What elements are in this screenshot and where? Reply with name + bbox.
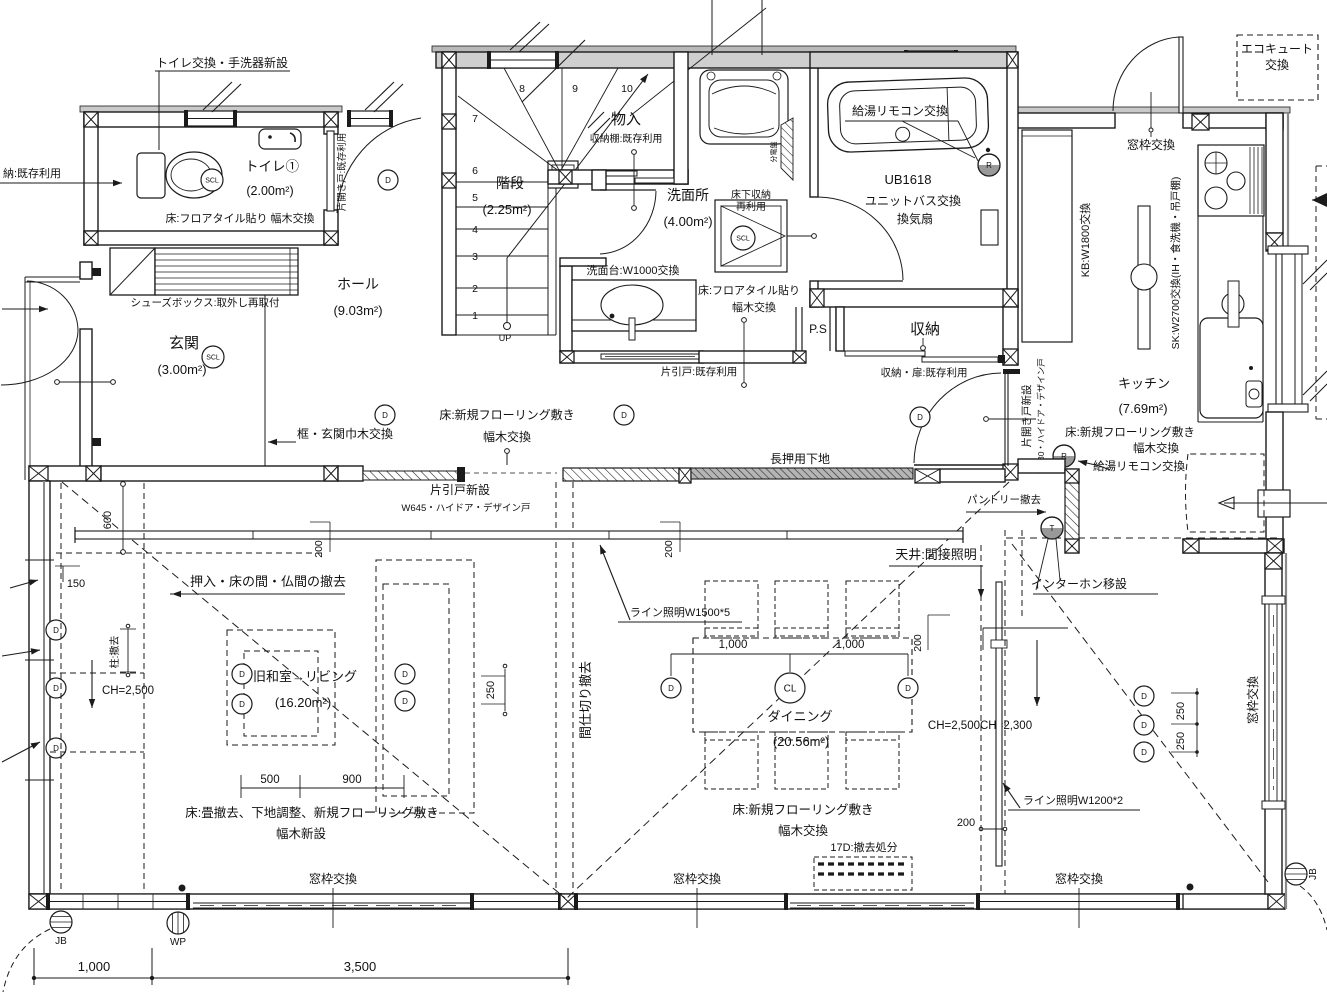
svg-text:JB: JB	[1308, 868, 1319, 880]
pillar cross: LDK top NW cross	[29, 466, 48, 481]
removal diagonal C (to SE corner)	[1012, 544, 1271, 886]
svg-text:SCL: SCL	[206, 355, 220, 362]
wall: LDK right wall	[1265, 553, 1282, 894]
ceiling line-light bar horizontal	[75, 531, 963, 539]
svg-text:物入: 物入	[611, 111, 641, 128]
svg-text:SCL: SCL	[205, 178, 219, 185]
svg-text:(16.20m²): (16.20m²)	[275, 695, 331, 710]
LDK left wall inner gray	[43, 481, 45, 894]
symbol circle: door mark D living-4	[395, 691, 415, 711]
kitchen top door arc	[1113, 37, 1179, 111]
svg-text:CL: CL	[784, 684, 797, 695]
kitchen new hatched wall	[1065, 469, 1079, 553]
eaves line above top wall	[432, 46, 1016, 52]
svg-text:収納: 収納	[910, 321, 940, 338]
arrow into left wall 1	[2, 650, 40, 656]
symbol circle: door mark D right-2	[1134, 715, 1154, 735]
window: top wall window above stairs	[487, 51, 559, 69]
svg-text:床:新規フローリング敷き: 床:新規フローリング敷き	[439, 407, 574, 422]
svg-text:150: 150	[67, 578, 85, 590]
symbol circle: door mark D right-1	[1134, 686, 1154, 706]
pillar cross: stairs wall cross low	[442, 173, 456, 188]
dining chair bottom 1	[705, 732, 758, 789]
black dot bottom left	[179, 885, 186, 892]
svg-text:天井:間接照明: 天井:間接照明	[895, 547, 977, 562]
wall: toilet left wall	[84, 112, 98, 245]
KB cabinet	[1022, 130, 1072, 342]
svg-text:旧和室→リビング: 旧和室→リビング	[253, 669, 357, 684]
svg-text:UP: UP	[499, 333, 512, 343]
symbol circle: door mark D toilet	[378, 170, 398, 190]
kamachi arrow	[268, 441, 296, 443]
symbol circle: R mark bath	[978, 154, 1000, 176]
dashed vertical left band 1	[60, 483, 62, 890]
svg-text:10: 10	[621, 83, 633, 95]
new wall tick bottom	[92, 438, 101, 446]
pillar cross: cross x915	[915, 469, 940, 483]
kitchen counter edges	[1197, 145, 1199, 422]
living dashed rect inner	[244, 651, 318, 736]
svg-text:換気扇: 換気扇	[897, 211, 933, 226]
svg-text:200: 200	[313, 540, 325, 558]
pillar cross: hatched wall bottom cross	[1065, 539, 1079, 553]
svg-text:窓枠交換: 窓枠交換	[1055, 871, 1103, 886]
eaves above toilet block	[80, 106, 342, 112]
back door arrow	[1224, 502, 1327, 504]
pillar cross: right wall top cross	[1265, 553, 1282, 569]
pillar cross: LDK bottom SW cross	[29, 894, 48, 909]
svg-text:柱:撤去: 柱:撤去	[108, 636, 121, 669]
svg-text:幅木交換: 幅木交換	[483, 429, 531, 444]
svg-text:250: 250	[485, 681, 497, 699]
cutting board rect	[1228, 281, 1239, 327]
hall floor note leader	[505, 449, 510, 454]
bottom track lines 2	[790, 902, 974, 904]
svg-text:床:新規フローリング敷き: 床:新規フローリング敷き	[1065, 425, 1195, 439]
svg-text:UB1618: UB1618	[885, 172, 932, 187]
svg-text:200: 200	[957, 817, 975, 829]
floor storage outer square	[715, 200, 787, 272]
svg-text:ホール: ホール	[337, 276, 379, 292]
dashed arc bottom left	[3, 929, 50, 992]
pillar cross: kitchen top wall cross R	[1266, 114, 1283, 130]
wall: storage right wall	[1003, 307, 1018, 365]
svg-text:D: D	[668, 684, 674, 693]
wall: top outer wall (stairs-bath)	[436, 52, 1016, 68]
LDK right wall outer gray	[1285, 553, 1287, 909]
underline and leaders for bath note	[845, 120, 958, 122]
symbol circle: door mark D living-1	[232, 664, 252, 684]
pillar cross: kitchen top wall cross L	[1192, 114, 1209, 130]
bath door arc	[818, 197, 903, 280]
hood circle	[1131, 264, 1157, 290]
dim 250 bracket right	[1196, 688, 1198, 757]
down arrow left	[91, 660, 93, 708]
pillar cross: bath SE cross	[1003, 289, 1018, 307]
shoe box shelves	[155, 248, 298, 295]
svg-text:幅木交換: 幅木交換	[1133, 441, 1179, 455]
leader line from toilet note	[155, 70, 290, 72]
bottom wall right segment	[1183, 894, 1268, 909]
dashed vertical left band 2	[143, 483, 145, 890]
symbol circle: CL mark dining	[775, 673, 805, 703]
svg-text:D: D	[382, 411, 388, 420]
svg-text:1: 1	[472, 310, 478, 322]
engawa slash marks bottom	[1303, 371, 1327, 395]
svg-text:4: 4	[472, 224, 478, 236]
wall: washroom left wall upper stub	[592, 170, 606, 190]
washroom floor leader	[742, 318, 747, 323]
washroom door leaf	[600, 189, 656, 191]
arrow down 1	[980, 570, 982, 598]
symbol circle: door mark D dining-L	[661, 678, 681, 698]
new wall tick top	[92, 268, 101, 276]
svg-text:片引戸新設: 片引戸新設	[430, 482, 490, 497]
wall: bath bottom wall	[810, 289, 1018, 307]
svg-text:D: D	[239, 700, 245, 709]
wall: washroom left wall lower	[560, 266, 572, 351]
svg-text:3: 3	[472, 251, 478, 263]
dashed outline right of engawa	[1315, 166, 1317, 419]
svg-text:200: 200	[663, 540, 675, 558]
svg-text:900: 900	[342, 774, 361, 786]
closet leader line	[632, 150, 637, 155]
pillar cross: cross at PS	[793, 351, 806, 363]
wall: closet bottom wall	[548, 170, 688, 184]
symbol circle: SCL mark toilet	[201, 169, 223, 191]
wall: LDK top wall seg3	[338, 466, 363, 481]
svg-text:(7.69m²): (7.69m²)	[1118, 401, 1167, 416]
left wall tick marks	[25, 559, 54, 561]
light connector line	[671, 653, 908, 655]
toilet bowl	[166, 152, 222, 198]
svg-text:(3.00m²): (3.00m²)	[157, 362, 206, 377]
wall: wall washroom to PS	[699, 351, 805, 363]
stair winder landing square	[548, 161, 578, 188]
symbol circle: door mark D left-3	[46, 738, 66, 758]
svg-text:納:既存利用: 納:既存利用	[3, 166, 61, 180]
svg-text:8: 8	[519, 83, 525, 95]
washing machine outline	[700, 70, 788, 144]
stair treads lower flight	[456, 206, 548, 208]
dining chair bottom 2	[775, 732, 828, 789]
svg-text:階段: 階段	[496, 175, 524, 191]
bottom dimension line	[34, 977, 568, 979]
svg-text:KB:W1800交換: KB:W1800交換	[1078, 203, 1092, 278]
pillar cross: LDK bottom cross mid	[560, 894, 576, 909]
pillar dim bracket	[127, 629, 129, 672]
window slash mark 1	[203, 82, 232, 110]
wall: kitchen bottom-right wall	[1183, 539, 1284, 553]
faucet circle	[1222, 293, 1244, 315]
wall: bath left wall	[810, 68, 818, 197]
symbol circle: JB mark right	[1285, 863, 1307, 885]
window slash mark above bath window	[522, 40, 585, 102]
pillar cross: kitchen bottom-right cross R	[1267, 539, 1283, 553]
pillar cross: storage right cross	[1003, 349, 1018, 365]
wall: LDK top wall hall-door seg	[940, 469, 1005, 482]
svg-text:玄関: 玄関	[169, 335, 199, 352]
long dashed line under kitchen	[1006, 537, 1280, 539]
svg-text:D: D	[402, 670, 408, 679]
svg-text:WP: WP	[170, 937, 186, 948]
shoe box square	[110, 248, 155, 295]
entrance door arc outer	[27, 281, 78, 331]
svg-text:CH=2,500: CH=2,500	[102, 685, 154, 697]
wall: toilet right wall top stub	[324, 112, 338, 134]
svg-text:給湯リモコン交換: 給湯リモコン交換	[1093, 459, 1185, 473]
エコキュート交換 dashed box	[1237, 35, 1318, 100]
dining table dashed	[693, 638, 912, 732]
svg-text:CH=2,500CH=2,300: CH=2,500CH=2,300	[928, 720, 1032, 732]
svg-text:片引戸:既存利用: 片引戸:既存利用	[661, 365, 737, 378]
underline intercom	[1033, 593, 1158, 595]
pillar cross: toilet SW	[84, 231, 98, 245]
svg-text:7: 7	[472, 113, 478, 125]
symbol circle: JB mark bottom-left	[50, 911, 72, 933]
svg-text:1,000: 1,000	[836, 639, 865, 651]
symbol circle: R mark kitchen	[1053, 445, 1075, 467]
wall: toilet bottom wall	[84, 231, 338, 245]
svg-text:キッチン: キッチン	[1118, 376, 1170, 391]
wall: right wall below engawa	[1266, 412, 1283, 539]
svg-text:(2.00m²): (2.00m²)	[246, 184, 293, 198]
pillar cross: LDK bottom SE cross	[1268, 894, 1285, 909]
door frame verticals	[1004, 373, 1006, 466]
svg-text:3,500: 3,500	[344, 959, 377, 974]
leader from top to 物入	[630, 8, 766, 116]
wall: kitchen top wall right part	[1183, 113, 1283, 128]
sink soap tray	[1246, 381, 1262, 407]
svg-text:200: 200	[912, 634, 924, 652]
symbol circle: door mark D hall-1	[375, 405, 395, 425]
svg-text:250: 250	[1175, 702, 1187, 720]
svg-text:窓枠交換: 窓枠交換	[1127, 137, 1175, 152]
svg-text:T: T	[1050, 524, 1055, 533]
washroom sliding door 片引戸	[601, 354, 699, 359]
floor storage leader	[787, 235, 812, 237]
dining chair bottom 3	[846, 732, 899, 789]
svg-text:窓枠交換: 窓枠交換	[1245, 676, 1260, 724]
svg-text:収納・扉:既存利用: 収納・扉:既存利用	[881, 366, 968, 379]
svg-text:交換: 交換	[1265, 57, 1289, 72]
symbol circle: door mark D hall-LDK	[910, 407, 930, 427]
kitchen back door step rect	[1258, 490, 1290, 517]
dashed horizontal left	[56, 552, 325, 554]
svg-text:D: D	[1141, 748, 1147, 757]
nageshi gray hatched band	[691, 468, 913, 479]
svg-text:トイレ①: トイレ①	[245, 159, 299, 174]
wall: entrance left outer wall lower	[80, 329, 92, 468]
svg-text:D: D	[621, 411, 627, 420]
hall-LDK door leaf	[914, 464, 1003, 466]
arrow into left wall 3	[10, 580, 38, 588]
top edge stub lines	[711, 0, 713, 55]
svg-text:洗面所: 洗面所	[667, 187, 709, 203]
agari-kamachi line	[264, 295, 266, 466]
pillar cross: bath NE cross	[1007, 52, 1018, 68]
bar tick rect	[991, 640, 1007, 648]
svg-text:W780・ハイドア・デザイン戸: W780・ハイドア・デザイン戸	[1036, 358, 1046, 474]
symbol circle: door mark D living-3	[395, 664, 415, 684]
svg-text:洗面台:W1000交換: 洗面台:W1000交換	[587, 263, 680, 277]
closet sliding door panel 2	[635, 178, 674, 183]
wall: storage left wall	[836, 307, 844, 351]
svg-text:(9.03m²): (9.03m²)	[333, 303, 382, 318]
wall: LDK top wall seg1	[29, 466, 101, 481]
svg-text:床:フロアタイル貼り 幅木交換: 床:フロアタイル貼り 幅木交換	[165, 211, 314, 225]
svg-text:D: D	[239, 670, 245, 679]
closet sliding door panel 1	[597, 171, 637, 176]
leader dot for new door	[984, 417, 989, 422]
pillar cross: toilet SE	[324, 231, 338, 245]
window: LDK bottom window 4	[976, 893, 1180, 910]
symbol circle: T mark intercom	[1041, 517, 1063, 539]
pillar cross: stairs wall cross mid	[442, 114, 456, 129]
pillar cross: washroom bottom cross	[560, 351, 574, 363]
svg-text:幅木交換: 幅木交換	[778, 823, 829, 838]
svg-text:D: D	[917, 413, 923, 422]
wall: bath top separation	[810, 52, 1016, 68]
leader for kitchen top window	[1150, 92, 1152, 137]
floor storage inner square	[721, 206, 781, 266]
svg-text:窓枠交換: 窓枠交換	[673, 871, 721, 886]
svg-text:1,000: 1,000	[719, 639, 748, 651]
intercom leaders	[1036, 539, 1048, 590]
svg-text:収納棚:既存利用: 収納棚:既存利用	[590, 132, 663, 145]
distribution board hatched wedge	[781, 118, 793, 180]
symbol circle: door mark D living-2	[232, 694, 252, 714]
pillar cross: LDK top cross x325	[324, 466, 338, 481]
svg-text:再利用: 再利用	[736, 201, 766, 213]
wall: toilet right wall bottom stub	[324, 210, 338, 245]
wall: bath left wall lower stub	[810, 281, 818, 307]
arrow into left wall 2	[2, 742, 40, 762]
svg-text:ユニットバス交換: ユニットバス交換	[865, 193, 961, 208]
svg-text:幅木交換: 幅木交換	[732, 300, 776, 314]
svg-text:片開き戸新設: 片開き戸新設	[1020, 384, 1033, 447]
svg-text:エコキュート: エコキュート	[1241, 42, 1313, 56]
svg-text:D: D	[1141, 721, 1147, 730]
svg-text:押入・床の間・仏間の撤去: 押入・床の間・仏間の撤去	[190, 574, 346, 589]
entrance step line with dots	[57, 381, 113, 383]
new hatched wall LDK top	[563, 468, 679, 481]
entry arrow	[2, 308, 48, 310]
svg-text:トイレ交換・手洗器新設: トイレ交換・手洗器新設	[156, 55, 288, 70]
symbol circle: SCL mark entrance	[202, 346, 224, 368]
fridge dashed box	[1186, 454, 1265, 532]
bathtub outer	[827, 77, 989, 153]
svg-text:5: 5	[472, 192, 478, 204]
dining chair top 1	[705, 581, 758, 638]
storage door end cap	[998, 355, 1005, 363]
pillar cross: hatched wall top cross	[1065, 469, 1079, 483]
window slash mark 2	[365, 82, 394, 110]
window: toilet top wall window 2	[347, 110, 393, 127]
living right dashed rect inner	[383, 584, 449, 796]
storage label leader	[922, 338, 924, 345]
svg-text:ダイニング: ダイニング	[767, 709, 832, 724]
window: LDK bottom window 2	[470, 893, 562, 910]
svg-text:D: D	[53, 684, 59, 693]
toilet door leaf (swing door)	[327, 131, 334, 211]
storage sliding door panel 2	[922, 357, 998, 362]
svg-text:R: R	[986, 161, 992, 170]
UP path break marks	[588, 112, 604, 128]
hall-LDK door arc	[914, 373, 1001, 463]
wall: bath right wall	[1007, 52, 1018, 307]
black dot bottom right	[1187, 884, 1194, 891]
pillar cross: bath SW cross	[810, 289, 824, 307]
bar top hline	[983, 627, 1068, 629]
svg-text:給湯リモコン交換: 給湯リモコン交換	[852, 103, 948, 118]
wall: LDK bottom wall	[29, 894, 1285, 909]
wall: LDK left wall	[29, 481, 50, 894]
bath door leaf	[818, 280, 903, 282]
window slash mark above stairs window	[510, 22, 540, 50]
symbol circle: door mark D dining-R	[898, 678, 918, 698]
wall: entrance left outer wall upper	[80, 262, 92, 279]
vertical line-light bar	[996, 582, 1002, 866]
arrows to R circle kitchen	[1078, 461, 1100, 466]
partition removal dashed pair	[555, 482, 557, 894]
wall: kitchen right outer wall	[1266, 113, 1283, 233]
window1 mullions	[82, 894, 84, 909]
symbol circle: WP mark bottom-left	[167, 912, 189, 934]
dashed closet box left-bottom	[50, 672, 144, 674]
svg-text:間仕切り撤去: 間仕切り撤去	[578, 661, 593, 739]
entrance door arc inner (double swing)	[1, 331, 78, 385]
UP path line	[506, 258, 508, 322]
washbasin counter	[572, 280, 696, 331]
dining chair top 3	[846, 581, 899, 638]
svg-text:9: 9	[572, 83, 578, 95]
svg-text:1,000: 1,000	[78, 959, 111, 974]
kitchen top door leaf	[1179, 37, 1183, 113]
engawa slash marks top	[1303, 260, 1327, 284]
window: toilet top wall window 1	[184, 110, 237, 127]
UP start circle	[504, 323, 511, 330]
washroom door arc	[600, 191, 656, 254]
bath bench rect	[981, 210, 998, 245]
svg-text:W645・ハイドア・デザイン戸: W645・ハイドア・デザイン戸	[401, 502, 530, 514]
svg-text:ライン照明W1200*2: ライン照明W1200*2	[1023, 794, 1123, 807]
wall: toilet block top wall	[84, 112, 338, 127]
pillar cross: toilet NW	[84, 112, 98, 127]
engawa window verticals	[1275, 254, 1277, 404]
outer face line right	[1287, 113, 1289, 251]
wall: closet right wall	[674, 52, 688, 184]
removal diagonal B (dining NE-SW)	[567, 482, 1009, 898]
pantry dashed verticals	[980, 545, 982, 894]
eaves above kitchen top wall	[1016, 107, 1290, 113]
left arrow at right edge	[1312, 193, 1327, 207]
living dashed rect outer	[227, 630, 335, 745]
dim 600 vertical left	[122, 481, 124, 552]
svg-text:ライン照明W1500*5: ライン照明W1500*5	[630, 606, 730, 619]
right window outer frames	[1262, 596, 1285, 604]
svg-text:JB: JB	[55, 936, 67, 947]
svg-text:250: 250	[1175, 732, 1187, 750]
svg-text:床:フロアタイル貼り: 床:フロアタイル貼り	[698, 283, 800, 297]
svg-text:床下収納: 床下収納	[731, 188, 771, 201]
storage sliding door panel 1	[845, 351, 925, 356]
window: LDK bottom window 3	[574, 893, 788, 910]
wall: LDK top wall seg2	[101, 466, 338, 481]
right wall window	[1265, 602, 1282, 803]
IH stove unit	[1198, 145, 1264, 216]
svg-text:D: D	[385, 176, 391, 185]
